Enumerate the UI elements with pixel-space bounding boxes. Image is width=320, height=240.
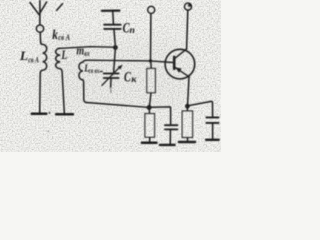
inductor L_св.вх — [79, 60, 87, 102]
label L_св.вх — [84, 62, 103, 75]
resistor R3 — [182, 111, 192, 137]
wire: L top to node A — [59, 47, 116, 49]
ground bar (C5) — [206, 139, 219, 141]
label k_св.А — [52, 28, 70, 43]
paper background — [0, 0, 221, 152]
transistor VT1 — [165, 49, 195, 79]
wire T1 down — [150, 13, 152, 60]
base wire: L_св.вх top to transistor base — [86, 60, 173, 62]
terminal T1 — [148, 6, 155, 13]
collector inside — [175, 49, 187, 59]
wire R1 to junction B — [149, 93, 151, 107]
node A junction — [113, 45, 118, 50]
emitter inside — [175, 67, 189, 77]
wire junction B to C4 — [149, 107, 170, 124]
label m_вх — [76, 44, 89, 58]
label C_п — [123, 21, 135, 37]
junction B — [147, 105, 152, 110]
capacitor C5 — [206, 117, 218, 123]
wire R3 to ground — [187, 138, 189, 141]
capacitor C_п terminal bar — [102, 10, 119, 12]
wire: bar to C_п — [112, 12, 115, 24]
wire junction C to C5 — [188, 101, 213, 116]
scan noise overlay — [0, 0, 221, 152]
wire to R1 — [150, 61, 152, 68]
wire junction B to R2 — [148, 110, 150, 114]
wire R2 to ground — [149, 137, 151, 141]
inductor L — [56, 48, 65, 112]
junction (base / R1 / terminal) — [149, 59, 152, 62]
junction C (emitter) — [185, 104, 190, 109]
label C_к — [124, 70, 137, 86]
ground bar (L_св.А) — [32, 113, 47, 116]
antenna W1 — [30, 1, 63, 26]
label L — [61, 48, 68, 62]
wire junction C to R3 — [186, 108, 188, 111]
ground bar (R3) — [179, 141, 195, 143]
central scan shading — [35, 38, 195, 113]
wire C4 to ground — [169, 130, 171, 143]
resistor R1 — [147, 69, 155, 93]
ground bar (L) — [56, 113, 73, 116]
resistor R2 — [145, 114, 155, 138]
wire: node A down to C_к (crosses base wire) — [114, 48, 116, 73]
C_к arrow — [102, 67, 120, 86]
emitter arrow (PNP) — [175, 67, 181, 72]
wire antenna to coil — [39, 32, 41, 43]
inductor L_св.А — [40, 42, 47, 113]
capacitor C_п — [104, 25, 120, 29]
terminal (antenna jack) — [37, 25, 44, 32]
label L_св.А — [19, 49, 40, 65]
C_к bottom stub (faded in scan) — [110, 79, 112, 87]
wire: C_п to node A — [114, 30, 115, 48]
capacitor C4 (bypass) — [165, 125, 178, 129]
collector wire — [187, 10, 188, 49]
wire: loop bottom to junction B — [87, 103, 150, 108]
wire C5 to ground — [212, 124, 214, 139]
ground bar (C4) — [160, 144, 175, 146]
base bar — [173, 57, 176, 69]
variable capacitor C_к — [104, 74, 119, 79]
emitter wire down — [188, 77, 190, 106]
ground bar (R2) — [142, 142, 157, 145]
terminal T2 — [185, 3, 192, 10]
